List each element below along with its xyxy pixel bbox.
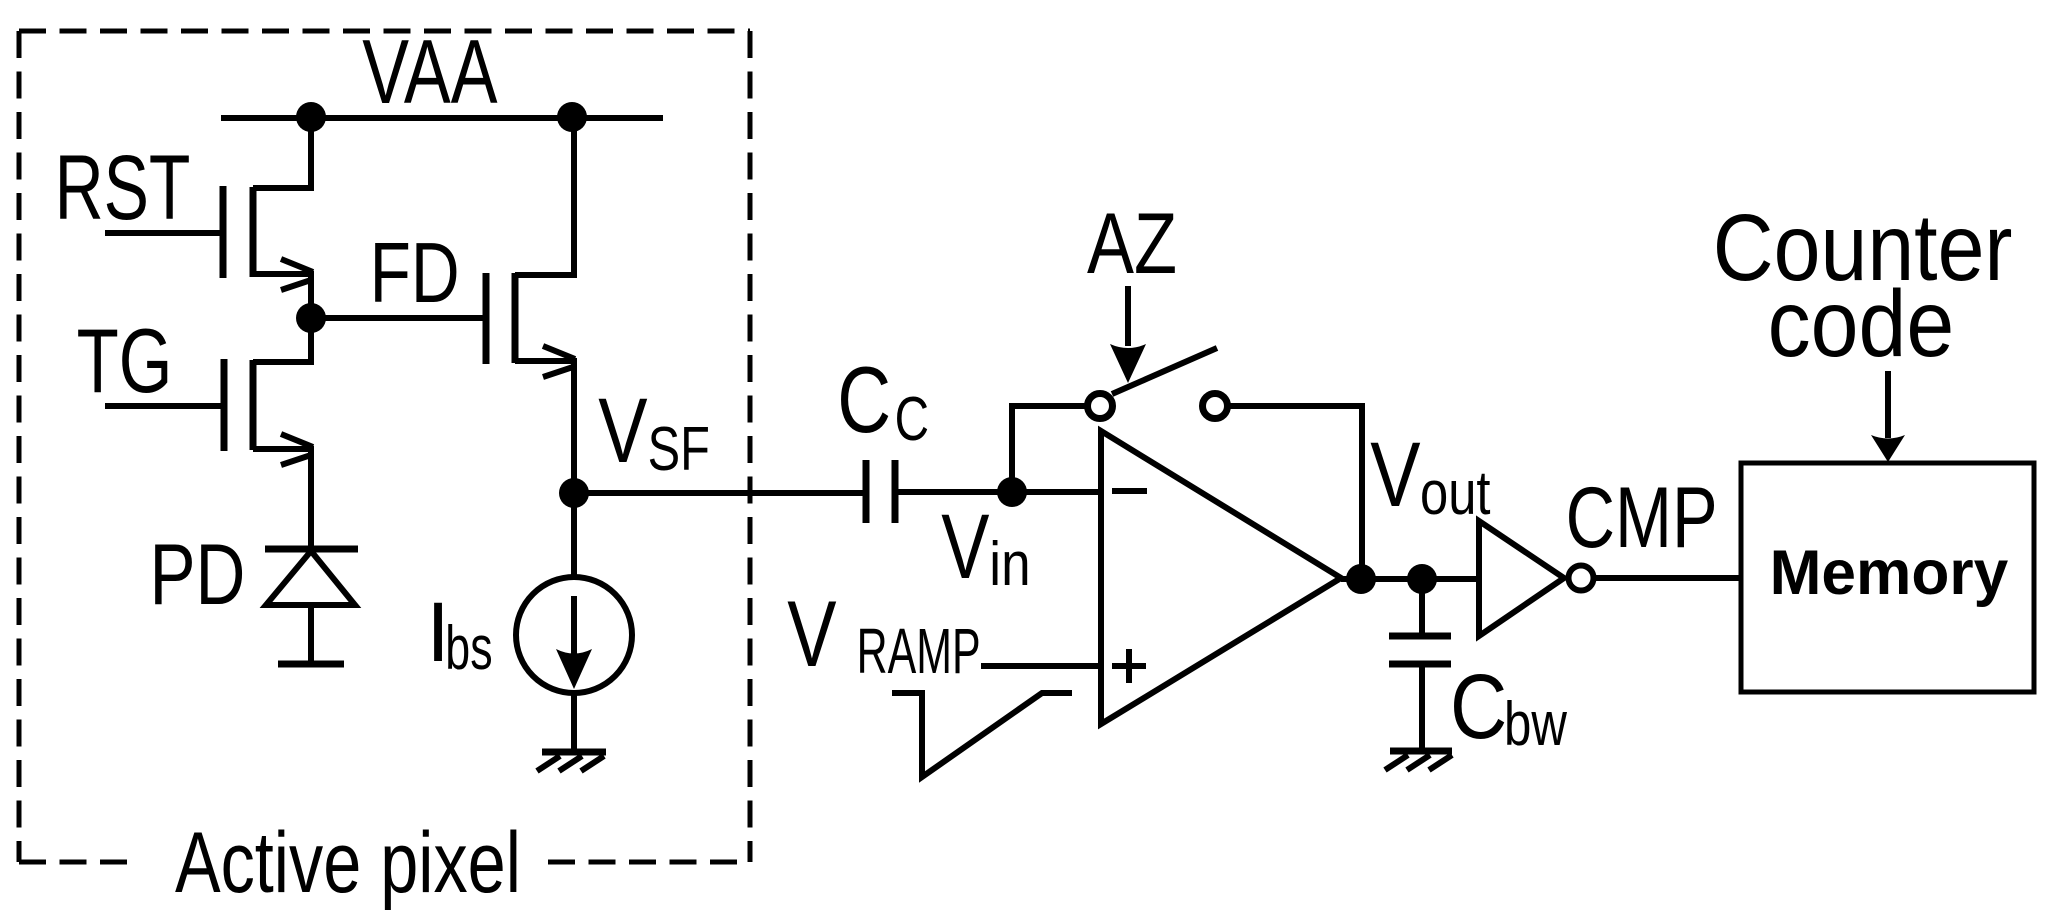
comparator plus sign [1112, 663, 1146, 669]
memory block [1741, 463, 2034, 692]
wire CMP to memory [1594, 575, 1741, 581]
node FD junction dot [296, 303, 326, 333]
ramp waveform symbol [892, 693, 1072, 777]
photodiode PD [265, 549, 358, 664]
svg-text:C: C [1450, 656, 1507, 758]
svg-text:code: code [1768, 271, 1955, 377]
svg-text:TG: TG [77, 311, 173, 412]
svg-text:out: out [1420, 459, 1491, 528]
svg-text:SF: SF [648, 415, 710, 484]
svg-text:V: V [941, 496, 989, 598]
wire VSF node to CC [574, 490, 866, 496]
wire Vin to comparator inverting input [1012, 489, 1101, 495]
node Vin junction dot [997, 477, 1027, 507]
svg-text:C: C [895, 385, 929, 454]
svg-text:RAMP: RAMP [857, 615, 981, 687]
svg-text:bs: bs [445, 614, 492, 683]
comparator minus sign [1112, 488, 1147, 494]
node VAA-SF junction dot [557, 102, 587, 132]
svg-text:V: V [598, 380, 647, 482]
svg-text:RST: RST [55, 137, 191, 239]
AZ control arrow [1125, 286, 1131, 346]
wire VAA rail [221, 115, 663, 121]
svg-text:in: in [989, 530, 1030, 599]
counter code arrow into memory [1885, 371, 1891, 438]
wire comparator output to inverter [1341, 576, 1479, 582]
svg-text:bw: bw [1504, 690, 1567, 759]
wire AZ switch to feedback node [1228, 406, 1362, 579]
current source Ibs [516, 493, 632, 750]
capacitor Cbw (bandwidth) [1389, 579, 1451, 750]
transistor SF (source follower NMOS) [486, 117, 575, 493]
switch AZ (auto-zero) [1112, 348, 1217, 394]
wire VRAMP to comparator non-inverting input [981, 663, 1101, 669]
svg-text:Active pixel: Active pixel [175, 815, 521, 911]
wire FD node to SF gate [311, 315, 486, 321]
inverter buffer U2 [1479, 521, 1564, 636]
svg-text:VAA: VAA [362, 22, 497, 123]
Active pixel enclosure (dashed box) [19, 31, 750, 862]
node comparator output junction dot [1346, 564, 1376, 594]
svg-text:V: V [787, 581, 837, 686]
svg-text:CMP: CMP [1566, 470, 1718, 566]
capacitor CC (coupling) [866, 460, 895, 523]
node VAA-RST junction dot [296, 102, 326, 132]
svg-text:FD: FD [370, 226, 460, 321]
svg-text:Memory: Memory [1770, 538, 2009, 608]
ground (pixel bias) [537, 752, 606, 771]
svg-text:C: C [837, 347, 891, 452]
svg-text:V: V [1370, 424, 1420, 526]
svg-text:PD: PD [150, 527, 246, 623]
node VSF junction dot [559, 478, 589, 508]
transistor RST (reset NMOS) [105, 117, 313, 318]
wire CC to Vin [895, 489, 1012, 495]
transistor TG (transfer gate NMOS) [105, 318, 313, 549]
node Cbw tap junction dot [1407, 564, 1437, 594]
wire Vin riser to AZ switch [1012, 406, 1087, 492]
svg-text:AZ: AZ [1087, 196, 1177, 292]
op-amp comparator U1 [1101, 431, 1341, 724]
ground (Cbw) [1385, 751, 1452, 770]
